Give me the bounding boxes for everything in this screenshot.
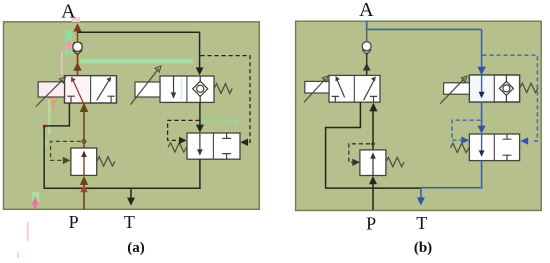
ghost pink vertical near ball: [61, 52, 63, 75]
V1 right blocked port T: [107, 96, 114, 103]
V8 pilot dashed sensing downstream: [349, 144, 370, 163]
wire P riser into V8 (black arrows): [372, 182, 374, 210]
V7 left position flow line w/ down arrow: [481, 134, 483, 156]
check valve ball (b): [362, 50, 371, 55]
V5 right blocked port T: [370, 96, 377, 102]
V3 left position flow line w/ down arrow: [199, 133, 201, 155]
valve V2 body (proportional throttle w/ check, panel a): [160, 76, 214, 102]
ghost cyan line in V2: [181, 78, 183, 100]
V7 left pilot dashed loop (blue): [452, 120, 481, 140]
panel a background: [4, 22, 260, 210]
V2 check valve position (diamond + ball): [199, 76, 201, 102]
wire V5 tank return (black): [326, 102, 361, 188]
wire A to top corner (blue): [367, 21, 482, 30]
svg-text:(a): (a): [127, 240, 145, 256]
ghost pink blob above panel top: [72, 17, 80, 22]
V7 right position blocked ports: [503, 134, 512, 139]
ghost pink arrow bottom left: [32, 197, 39, 205]
valve V5 body (3/2 pilot valve, panel b): [329, 75, 380, 102]
valve V7 body (pressure compensator, panel b): [469, 134, 519, 161]
svg-text:P: P: [366, 213, 376, 233]
wire T drop w/ arrow (blue): [420, 188, 422, 199]
valve V3 body (pressure compensator, panel a): [187, 133, 240, 159]
V1 right position arrow: [97, 79, 110, 101]
wire T drop w/ arrow (black): [130, 188, 132, 199]
wire ball to valve V1 (brown, arrow up): [77, 53, 79, 76]
V4 internal flow arrow (upward): [83, 153, 85, 175]
ghost green patch bottom left: [32, 192, 39, 203]
V1 proportional pilot box: [38, 82, 64, 97]
V5 left blocked port T: [332, 96, 339, 102]
wire V2 to V3 (black, arrow down): [199, 102, 201, 127]
ghost salmon mark under pilot box: [49, 96, 59, 109]
wire V6 to V7 (blue, arrow down): [481, 102, 483, 128]
wire V1 tank return (black, down-left-down): [44, 103, 69, 188]
valve V4 pressure reducing valve (panel a): [71, 148, 97, 175]
wire top branch to right (black): [78, 31, 200, 33]
wire P riser to V5 (black, arrows up): [372, 110, 374, 150]
V6 proportional pilot box: [444, 83, 470, 94]
ghost pink strokes below panel: [27, 222, 29, 241]
V8 spring right: [386, 157, 404, 166]
V6 check valve position (diamond + ball): [505, 75, 507, 102]
V5 proportional pilot box: [305, 81, 329, 93]
V3 left pilot dashed loop tapping downstream: [168, 120, 200, 140]
check valve ball (a): [73, 50, 83, 55]
V4 spring right: [97, 157, 115, 166]
wire V3 exit down (black): [199, 159, 201, 189]
wire A stub down to ball (grey): [366, 29, 368, 42]
junction node on P riser (b): [371, 142, 375, 146]
wire bottom rail blue part (b): [421, 187, 482, 189]
V6 spring right: [520, 83, 538, 92]
V2 left position flow line w/ down arrow: [173, 76, 175, 98]
ghost pink corner dot: [43, 125, 47, 129]
wire bottom rail black part (b): [325, 187, 421, 189]
svg-text:P: P: [69, 212, 79, 232]
pilot line upstream tap (black dashed to V3 right pilot): [201, 56, 251, 143]
wire A riser brown top segment with arrow: [77, 30, 79, 43]
V7 spring left: [450, 143, 469, 152]
ghost green dashes near V3: [203, 120, 236, 129]
svg-text:A: A: [61, 1, 76, 23]
wire P supply to V1 (brown riser w/ big arrow): [83, 110, 85, 148]
pilot line upstream tap (blue dashed to V7 right pilot): [482, 55, 537, 141]
wire right riser (blue, arrow down into V6): [481, 29, 483, 69]
valve V8 pressure reducing valve (panel b): [360, 150, 386, 176]
V3 spring left: [168, 143, 187, 152]
wire A branch down into V2 (black, arrow): [199, 32, 201, 70]
V5 left position arrow: [336, 78, 344, 97]
valve V1 body (3/2 pilot valve, panel a): [65, 76, 117, 103]
ghost green band at A branch corner: [65, 31, 72, 55]
ghost green vertical near reducing valve: [48, 99, 51, 134]
V8 internal flow arrow (upward): [372, 155, 374, 176]
V6 left position flow line w/ down arrow (blue flow): [481, 75, 483, 93]
svg-text:(b): (b): [414, 240, 432, 256]
V4 pilot dashed sensing downstream: [51, 141, 81, 160]
svg-text:A: A: [359, 0, 374, 21]
V5 right position arrow: [364, 79, 375, 101]
wire ball to valve V5 (black arrow up): [366, 53, 368, 76]
panel b background: [296, 21, 542, 210]
V3 right position blocked ports: [222, 133, 231, 138]
wire bottom return rail (black): [44, 187, 201, 189]
V1 left blocked port T: [67, 96, 75, 103]
ghost pink arrow near check valve: [65, 39, 73, 47]
svg-text:T: T: [124, 212, 135, 232]
wire V7 exit down (blue): [481, 161, 483, 189]
ghost green band right of check valve: [80, 59, 193, 64]
V2 spring right: [214, 84, 232, 94]
V1 left position crossed arrow (red flow): [72, 79, 83, 103]
svg-text:T: T: [416, 213, 427, 233]
V2 proportional pilot box: [135, 82, 160, 97]
wire P riser into V4 (brown arrows): [83, 182, 85, 210]
junction node on P riser: [82, 139, 86, 143]
valve V6 body (proportional throttle w/ check, panel b): [469, 75, 519, 102]
